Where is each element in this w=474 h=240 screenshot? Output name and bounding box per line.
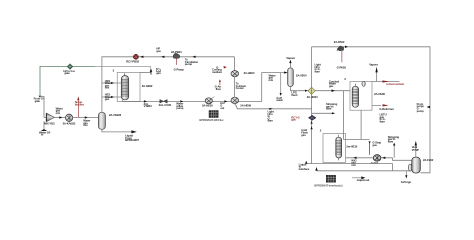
- vessel boot: [408, 164, 412, 171]
- node Light HCs to flare: [315, 63, 321, 74]
- wire drop to HE04: [234, 57, 236, 71]
- wire into mixer: [40, 97, 46, 118]
- wire box bottoms down: [344, 91, 370, 140]
- svg-text:pump: pump: [185, 62, 193, 66]
- svg-text:G-Pump: G-Pump: [174, 67, 185, 71]
- wire vessel inlet top: [393, 158, 412, 161]
- node Liquid out: [352, 176, 369, 182]
- wire pump suction line: [346, 157, 393, 159]
- node To Circulation pump: [185, 58, 199, 67]
- svg-text:Cooler: Cooler: [236, 86, 245, 90]
- svg-text:BPRD-BNT: BPRD-BNT: [125, 138, 139, 142]
- svg-text:gate: gate: [35, 99, 41, 103]
- svg-text:gas: gas: [105, 97, 110, 101]
- node H2 to G-u gate label: [63, 69, 75, 75]
- pump 2A-HE05: [202, 97, 214, 108]
- svg-text:V1B03: V1B03: [144, 104, 153, 108]
- svg-text:G-PA02: G-PA02: [337, 65, 347, 69]
- svg-text:G-Reformer: G-Reformer: [379, 107, 394, 111]
- node flare gas arrow: [150, 69, 162, 76]
- wire drop to G-Y01 pump red: [369, 141, 371, 154]
- wire UE06 bottom down: [360, 110, 362, 139]
- node From purge G-pump: [417, 102, 425, 113]
- wire exchanger inlet upper: [102, 82, 121, 84]
- svg-text:Vapour: Vapour: [369, 62, 379, 66]
- valve H2-diamond: [67, 64, 73, 70]
- wire HE04 to HE06: [234, 77, 236, 97]
- svg-text:2A-KA01B: 2A-KA01B: [63, 122, 76, 126]
- compressor 2A-KA01B: [63, 114, 76, 125]
- table BPRD26HT-interface: [314, 175, 342, 187]
- svg-text:mix: mix: [269, 78, 274, 82]
- mixer MIX-YD2: [44, 113, 55, 125]
- svg-text:gas: gas: [329, 84, 334, 88]
- node From G4 gate: [34, 96, 45, 103]
- svg-text:gas: gas: [301, 133, 306, 137]
- svg-text:medium: medium: [212, 70, 223, 74]
- table BPRD26HT-WtrFlux: [199, 111, 224, 122]
- node wash branch: [275, 73, 283, 103]
- svg-text:flash: flash: [291, 93, 297, 97]
- pump G-Y01: [371, 155, 381, 166]
- cooler 2A-HE04: [231, 71, 255, 77]
- svg-text:flare: flare: [380, 120, 386, 124]
- wire cracked gas to box: [315, 90, 350, 92]
- node stripping gas to flare right: [388, 135, 400, 158]
- wire H2 green header: [40, 66, 151, 95]
- cooler 2A-HE06: [231, 97, 252, 107]
- svg-text:gas: gas: [156, 49, 161, 53]
- node Liquid to interface label: [299, 162, 310, 171]
- svg-text:gas: gas: [291, 118, 296, 122]
- node to Economizer red: [383, 80, 406, 86]
- svg-text:2A-HE02: 2A-HE02: [142, 84, 153, 88]
- svg-text:G-Purge: G-Purge: [401, 180, 412, 184]
- node Liquid From BPRD-BNT: [125, 130, 139, 142]
- node G-Air flow: [215, 79, 222, 90]
- node Water G4 in: [39, 129, 51, 137]
- node light HCs trunk label: [268, 110, 274, 123]
- vessel 2A-V1B03: [98, 112, 121, 129]
- pump 2A-PB01: [171, 50, 184, 72]
- compressor 2A-PA02: [334, 40, 347, 69]
- node hot G out label: [220, 101, 224, 110]
- column 2A-HE10: [336, 135, 358, 161]
- svg-text:BPRD26HT-WtrFlux: BPRD26HT-WtrFlux: [199, 118, 224, 122]
- node HP gas label: [156, 47, 161, 53]
- svg-text:interface: interface: [299, 167, 310, 171]
- wire economizer line: [372, 81, 400, 83]
- node water gas mix label 1: [56, 106, 64, 115]
- svg-text:2A-MX01: 2A-MX01: [307, 95, 319, 99]
- exchanger 2A-HE02: [121, 73, 153, 100]
- wire stripping gas to flare: [312, 112, 335, 114]
- svg-text:2A-HE06: 2A-HE06: [240, 103, 251, 107]
- column 2A-VE04: [288, 68, 307, 87]
- wire VE04 bottoms: [290, 87, 308, 91]
- svg-text:mix: mix: [105, 86, 110, 90]
- svg-text:2AL-CV03: 2AL-CV03: [159, 103, 172, 107]
- wire trunk vertical: [311, 47, 313, 164]
- svg-text:Liquid-out: Liquid-out: [357, 178, 370, 182]
- wire exchanger inlet lower: [102, 96, 121, 98]
- wire interface long line: [317, 168, 410, 171]
- node water reflux pump label: [176, 102, 184, 111]
- wire flare stub: [140, 72, 151, 74]
- wire compressor to vessel: [73, 117, 99, 119]
- svg-text:2A-VE04: 2A-VE04: [296, 73, 307, 77]
- svg-text:2A-HE04: 2A-HE04: [244, 71, 255, 75]
- svg-text:purge: purge: [412, 147, 420, 151]
- svg-text:mix: mix: [83, 123, 88, 127]
- wire recycle header: [102, 57, 235, 113]
- box heat exchanger unit: [117, 73, 140, 102]
- svg-text:blocker: blocker: [75, 103, 85, 107]
- wire mixer to compressor: [54, 117, 65, 119]
- box G4 column unit: [350, 82, 372, 111]
- node surge blocker red vent: [75, 96, 85, 117]
- node LBTU gas label: [380, 113, 387, 124]
- node G-Reformer red: [372, 104, 395, 111]
- svg-text:flare: flare: [268, 119, 274, 123]
- svg-text:gate: gate: [64, 71, 70, 75]
- node water gas mix label 2: [83, 119, 91, 128]
- svg-text:G-Y01: G-Y01: [371, 161, 379, 165]
- svg-text:to Economizer: to Economizer: [386, 82, 405, 86]
- svg-text:2w-HE10: 2w-HE10: [346, 144, 357, 148]
- column 2A-UE06: [352, 84, 385, 107]
- wire bottom product line: [122, 73, 287, 102]
- svg-text:2A-V1B03: 2A-V1B03: [109, 113, 122, 117]
- wire HE06 to trunk: [234, 103, 311, 108]
- recycle RCY-PB02: [126, 54, 139, 63]
- recycle RCY-G gas diamond: [291, 115, 316, 123]
- node Vapour top: [369, 62, 379, 81]
- wire liquid to interface upper: [306, 164, 392, 171]
- svg-text:2A-HE05: 2A-HE05: [202, 104, 213, 108]
- vessel condensate pot: [362, 81, 365, 86]
- box stripper unit: [323, 134, 346, 163]
- node To G-driven cooler red: [236, 82, 247, 91]
- wire vessel bottom to BPRD arrow: [102, 129, 131, 132]
- svg-text:BPRD26HT-interface(s): BPRD26HT-interface(s): [314, 183, 342, 187]
- node G-Cooling medium red: [212, 65, 223, 74]
- svg-text:wash: wash: [275, 98, 283, 102]
- wire trunk up-arrow: [311, 126, 313, 129]
- vessel 2A-FL02: [412, 157, 434, 173]
- svg-text:RCY-PB02: RCY-PB02: [126, 60, 139, 64]
- svg-text:flare: flare: [315, 70, 321, 74]
- svg-text:2A-PA02: 2A-PA02: [334, 40, 345, 44]
- wire water feed: [43, 121, 45, 131]
- svg-text:Vapour: Vapour: [286, 56, 296, 60]
- svg-text:2A-UE06: 2A-UE06: [374, 92, 385, 96]
- node Vent purge top: [412, 141, 420, 157]
- svg-text:pump: pump: [176, 106, 184, 110]
- node Cold Flash gas: [301, 128, 308, 137]
- mixer 2A-MX01 yellow: [307, 87, 319, 99]
- svg-text:gas: gas: [372, 143, 377, 147]
- node WG gas mix label: [351, 158, 356, 167]
- wire top header to border: [312, 47, 430, 173]
- svg-text:gas: gas: [156, 71, 161, 75]
- svg-text:flare: flare: [326, 107, 332, 111]
- svg-text:MIX-YD2: MIX-YD2: [44, 122, 55, 126]
- svg-text:out: out: [220, 106, 224, 110]
- node water gas mix to VE04: [269, 73, 277, 82]
- svg-text:mix: mix: [56, 111, 61, 115]
- valve 2AL-CV03: [159, 100, 172, 108]
- svg-text:flare: flare: [388, 139, 394, 143]
- svg-text:2A-FL02: 2A-FL02: [423, 158, 434, 162]
- svg-text:pump: pump: [417, 109, 425, 113]
- node G-Strip gas label: [372, 141, 381, 147]
- node G-Purge: [401, 171, 412, 184]
- node vapour top VE04: [286, 56, 296, 68]
